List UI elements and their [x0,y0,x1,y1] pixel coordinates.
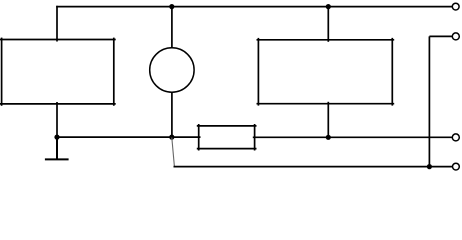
terminal T3 [452,134,459,141]
wire meter bottom [171,92,173,138]
wire slanted meter node to bottom bus [172,138,175,167]
wire right block top feed [327,7,329,42]
terminal T1 [452,3,459,10]
wire ground node to resistor [57,136,201,138]
wire left block top feed [56,6,58,42]
wire left block bottom feed [56,102,58,137]
wire bottom bus [174,166,453,168]
junction dot top bus / right block [326,4,331,9]
wire meter top [171,7,173,49]
wire terminal T2 horizontal [429,35,452,37]
junction dot right block bottom node [326,135,331,140]
junction dot ground node [54,135,59,140]
block U1 (left rectangle) [0,38,116,106]
wire right block bottom feed [327,102,329,138]
terminal T4 [453,163,460,170]
junction dot bottom bus / T2 drop [427,164,432,169]
meter M1 [150,48,194,92]
terminal T2 [452,33,459,40]
block U2 (right rectangle) [257,38,395,106]
wire resistor to terminal T3 [253,136,452,138]
wire terminal T2 vertical drop [428,36,430,166]
junction dot top bus / meter [169,4,174,9]
junction dot meter bottom node [169,135,174,140]
wire top bus [56,6,452,8]
resistor R1 [197,124,257,151]
ground [45,137,69,159]
